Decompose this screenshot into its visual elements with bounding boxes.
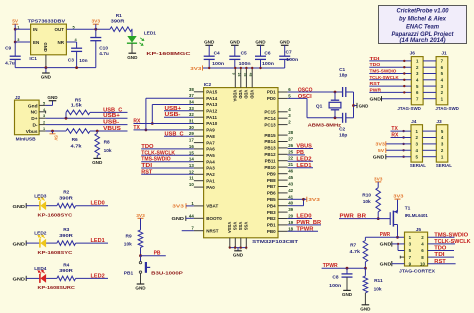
node RX junction (151, 122, 154, 125)
ground symbol regulator (45, 68, 47, 73)
svg-text:PWR_BR: PWR_BR (296, 220, 321, 226)
svg-text:C9: C9 (5, 46, 11, 52)
LED LED4 (39, 274, 41, 283)
svg-text:3V3: 3V3 (136, 213, 145, 219)
wire D+ / net USB+ (46, 117, 128, 119)
wire net RX to J4 (391, 137, 412, 139)
capacitor C7 100n (284, 45, 286, 56)
svg-text:PB7: PB7 (267, 184, 276, 189)
wire J4-J3 (423, 137, 437, 139)
wire J6-J1 (423, 98, 436, 100)
supply 5V at J4 (386, 149, 411, 151)
node rail junction (240, 67, 242, 69)
svg-text:TMS-SWDIO: TMS-SWDIO (434, 232, 468, 238)
svg-text:4.7u: 4.7u (99, 51, 109, 57)
svg-text:GND: GND (41, 75, 52, 80)
wire LED4 to R4 (46, 277, 57, 279)
svg-text:PWR: PWR (370, 87, 382, 92)
svg-text:GND: GND (172, 216, 185, 221)
svg-text:3V3: 3V3 (190, 66, 202, 71)
svg-text:48: 48 (249, 73, 253, 77)
svg-text:LED1: LED1 (91, 238, 105, 244)
svg-text:PWR_BR: PWR_BR (340, 213, 367, 219)
svg-text:GND: GND (255, 40, 266, 45)
resistor R6 (66, 129, 90, 134)
wire NRST (182, 230, 194, 232)
wire net LED0 (288, 218, 312, 220)
wire R1 to LED1 (131, 29, 133, 36)
IC2 pin 17 PA7 (194, 142, 204, 144)
svg-text:100n: 100n (329, 283, 341, 289)
svg-text:VDDA: VDDA (233, 90, 238, 102)
svg-text:C3: C3 (68, 58, 74, 64)
svg-text:GND: GND (135, 286, 146, 291)
wire J4-J3 (423, 143, 437, 145)
svg-text:VDD: VDD (244, 90, 249, 99)
svg-text:C6: C6 (264, 50, 270, 56)
pushbutton PB1 B3U-1000P (140, 256, 142, 262)
svg-text:CricketProbe v1.00: CricketProbe v1.00 (397, 8, 450, 15)
IC2 pin 3 PC14 (278, 117, 288, 119)
wire RX (134, 123, 194, 125)
wire net TCLK-SWCLK to J6 (369, 79, 411, 81)
svg-text:100n: 100n (286, 57, 298, 63)
capacitor C3 (66, 41, 76, 43)
svg-text:LED1: LED1 (144, 31, 157, 37)
wire net TCLK-SWCLK (141, 154, 194, 156)
node VSS junction (229, 247, 231, 249)
svg-text:PA1: PA1 (206, 178, 215, 183)
supply 3V3 at T1 source (395, 198, 401, 200)
wire PB5/PB4 3V3 (288, 198, 304, 200)
svg-text:100n: 100n (212, 61, 224, 67)
ground symbol C8 (343, 289, 351, 291)
svg-text:PB3: PB3 (267, 210, 276, 215)
wire net RST (141, 173, 194, 175)
svg-text:C1: C1 (339, 67, 345, 73)
IC2 pin 30 PA9 (194, 129, 204, 131)
svg-text:1.5k: 1.5k (71, 103, 82, 109)
svg-text:5: 5 (43, 101, 45, 105)
svg-text:36: 36 (243, 73, 247, 77)
svg-text:3V3: 3V3 (172, 204, 184, 209)
node C8 junction (346, 267, 349, 270)
svg-text:GND: GND (373, 154, 385, 159)
svg-text:5V: 5V (378, 148, 384, 153)
IC2 pin 23 VSS (234, 238, 236, 248)
svg-text:KP-1608SYC: KP-1608SYC (38, 250, 74, 255)
svg-text:42: 42 (288, 188, 293, 193)
wire net PWR_BR (339, 218, 390, 220)
ground label crystal (354, 105, 358, 107)
ground symbol C6 (257, 44, 265, 46)
svg-text:ENAC Team: ENAC Team (406, 23, 439, 30)
wire net USB_C (164, 135, 194, 137)
wire net RST at J5 (428, 263, 456, 265)
IC2 pin 38 PA15 (194, 91, 204, 93)
wire net TMS-SWDIO to J6 (369, 73, 411, 75)
IC2 pin 48 VDD (251, 68, 253, 88)
svg-text:PA13: PA13 (206, 102, 217, 107)
svg-text:390R: 390R (59, 268, 73, 274)
svg-text:VBAT: VBAT (206, 204, 218, 209)
svg-text:C5: C5 (241, 50, 247, 56)
svg-text:PB1: PB1 (124, 270, 134, 276)
IC2 pin 4 PC15 (278, 111, 288, 113)
IC2 pin 18 PB0 (278, 230, 288, 232)
svg-text:10: 10 (189, 182, 194, 187)
connector J4 (411, 125, 423, 162)
svg-text:C8: C8 (332, 275, 338, 281)
svg-text:4.7u: 4.7u (5, 60, 15, 66)
svg-text:46: 46 (288, 169, 293, 174)
svg-text:PB1: PB1 (267, 223, 276, 228)
svg-text:by Michel & Alex: by Michel & Alex (399, 16, 447, 23)
node VSS junction (234, 247, 236, 249)
svg-text:PB11: PB11 (265, 158, 277, 163)
svg-text:45: 45 (288, 175, 293, 180)
svg-text:PA9: PA9 (206, 128, 215, 133)
resistor R4 (57, 276, 76, 281)
svg-text:PD1: PD1 (267, 90, 276, 95)
supply 3V3 at J4 (386, 143, 411, 145)
svg-text:EN: EN (33, 40, 39, 45)
node TPWR junction (364, 267, 367, 270)
svg-text:25: 25 (288, 149, 293, 154)
ground symbol R8 (93, 157, 101, 159)
svg-text:LED0: LED0 (91, 201, 105, 207)
svg-text:LED3: LED3 (34, 193, 47, 199)
svg-text:28: 28 (288, 130, 293, 135)
svg-text:VSS: VSS (233, 222, 238, 231)
IC2 pin 10 PA0 (194, 186, 204, 188)
supply 3V3 above R10 (375, 181, 381, 183)
svg-text:PA3: PA3 (206, 166, 215, 171)
wire D- / net USB- (46, 124, 128, 126)
svg-text:20: 20 (288, 214, 293, 219)
svg-text:39: 39 (288, 207, 293, 212)
ground symbol R11 (362, 304, 370, 306)
IC2 pin 22 PB11 (278, 160, 288, 162)
IC2 pin 34 PA13 (194, 104, 204, 106)
wire VSS join (230, 247, 247, 249)
wire net TMS-SWDIO (141, 161, 194, 163)
supply 5V (12, 23, 18, 25)
svg-text:PB5: PB5 (267, 197, 276, 202)
wire net PB (288, 154, 305, 156)
svg-text:USB+: USB+ (165, 106, 182, 112)
svg-text:LED2: LED2 (91, 273, 105, 279)
connector J1 (436, 57, 448, 105)
capacitor C6 100n (260, 45, 262, 56)
J2 NC tick (45, 111, 47, 114)
wire LED1 to ground (131, 43, 133, 53)
svg-text:44: 44 (189, 213, 194, 218)
svg-text:1: 1 (43, 127, 45, 131)
wire 5V to IN (15, 28, 30, 30)
wire IN-EN vertical (14, 29, 16, 42)
svg-text:29: 29 (189, 131, 194, 136)
wire net TDO (141, 148, 194, 150)
resistor R3 (57, 241, 76, 246)
svg-text:PC15: PC15 (264, 110, 276, 115)
3V3 rail wire (203, 67, 285, 69)
IC2 pin 2 PC13 (278, 124, 288, 126)
svg-text:43: 43 (288, 182, 293, 187)
svg-text:GND: GND (230, 40, 241, 45)
svg-text:R3: R3 (63, 227, 69, 233)
svg-text:PA15: PA15 (206, 90, 217, 95)
svg-text:NRST: NRST (206, 228, 219, 233)
svg-text:VBUS: VBUS (103, 126, 122, 132)
svg-text:11: 11 (189, 176, 194, 181)
ground symbol C7 (281, 44, 289, 46)
IC2 pin 39 PB3 (278, 211, 288, 213)
svg-text:R2: R2 (63, 190, 69, 196)
wire net TDI at J5 (428, 256, 454, 258)
svg-text:B3U-1000P: B3U-1000P (151, 270, 183, 275)
svg-text:12: 12 (189, 169, 194, 174)
svg-text:J3: J3 (436, 119, 442, 125)
svg-text:J5: J5 (416, 227, 422, 233)
svg-text:C10: C10 (99, 46, 108, 52)
IC2 pin 44 BOOT0 (194, 217, 204, 219)
svg-text:TDI: TDI (370, 56, 380, 61)
supply 3V3 (93, 23, 99, 25)
capacitor C9 (14, 42, 16, 56)
svg-text:USB-: USB- (165, 112, 181, 118)
svg-text:TDI: TDI (141, 163, 153, 169)
wire R4 / net LED2 (76, 277, 108, 279)
IC2 pin 16 PA6 (194, 148, 204, 150)
node D+/R5 junction (65, 117, 68, 120)
resistor R8 (96, 131, 98, 134)
svg-text:TPWR: TPWR (323, 263, 338, 269)
svg-text:10: 10 (420, 261, 425, 266)
svg-text:USB-: USB- (103, 120, 119, 126)
wire R2 / net LED0 (76, 205, 108, 207)
supply 3V3 at PB5 (304, 198, 307, 200)
svg-text:GND: GND (13, 241, 26, 246)
svg-text:TCLK-SWCLK: TCLK-SWCLK (141, 150, 175, 156)
IC2 pin 36 VDD (245, 68, 247, 88)
node rail/GND junction (45, 66, 48, 69)
svg-text:GND: GND (360, 307, 371, 312)
supply 5V below Vbus (52, 131, 54, 134)
wire J4-J3 (423, 149, 437, 151)
svg-text:PA4: PA4 (206, 159, 215, 164)
IC2 pin 26 PB13 (278, 147, 288, 149)
svg-text:30: 30 (189, 125, 194, 130)
wire J6-J1 (423, 91, 436, 93)
svg-text:TCLK-SWCLK: TCLK-SWCLK (370, 75, 400, 80)
svg-text:GND: GND (370, 96, 382, 101)
svg-text:USB_C: USB_C (165, 131, 185, 137)
wire net PB (141, 255, 166, 257)
svg-text:3V3: 3V3 (92, 19, 101, 25)
svg-text:TMS-SWDIO: TMS-SWDIO (370, 69, 397, 74)
svg-text:13: 13 (189, 163, 194, 168)
svg-text:R10: R10 (362, 192, 371, 198)
node Vbus/R8 junction (96, 130, 99, 133)
node TX junction (145, 129, 148, 132)
svg-text:TX: TX (133, 125, 140, 131)
node rail junction (245, 67, 247, 69)
capacitor C5 100n (234, 45, 236, 56)
wire J6-J1 (423, 66, 436, 68)
capacitor C2 18p (342, 113, 344, 123)
wire net RST to J6 (369, 85, 411, 87)
ground symbol C5 (231, 44, 239, 46)
node OUT/3V3 junction (94, 28, 97, 31)
svg-text:100n: 100n (262, 61, 274, 67)
svg-text:RST: RST (434, 259, 446, 265)
node IN junction (14, 28, 17, 31)
svg-text:C7: C7 (286, 50, 292, 56)
resistor R10 (377, 182, 379, 188)
svg-text:LED0: LED0 (296, 214, 311, 220)
svg-text:16: 16 (189, 144, 194, 149)
wire net TDI to J6 (369, 60, 411, 62)
node PWR junction (396, 236, 399, 239)
wire LED2 to R3 (46, 242, 57, 244)
svg-text:22: 22 (288, 156, 293, 161)
IC2 pin 5 PD0 (278, 97, 288, 99)
svg-text:KP-1608SURC: KP-1608SURC (38, 285, 76, 290)
svg-text:PA11: PA11 (206, 115, 217, 120)
wire GND to LED3 (26, 205, 40, 207)
IC2 pin 33 PA12 (194, 110, 204, 112)
wire GND to LED4 (26, 277, 40, 279)
wire J6-J1 (423, 73, 436, 75)
IC1 GND pin (45, 55, 47, 68)
svg-text:TDO: TDO (141, 144, 153, 150)
svg-text:26: 26 (288, 143, 293, 148)
svg-text:IC2: IC2 (204, 82, 212, 88)
svg-text:GND: GND (380, 261, 392, 266)
svg-text:10k: 10k (374, 286, 382, 292)
svg-text:3: 3 (43, 114, 45, 118)
IC2 pin 20 PB2 (278, 218, 288, 220)
svg-text:STM32F103CBT: STM32F103CBT (252, 239, 298, 245)
svg-text:RST: RST (370, 81, 381, 86)
wire net TDO at J5 (428, 250, 454, 252)
node rail junction (259, 67, 261, 69)
node VSS junction (245, 247, 247, 249)
wire net PWR (365, 236, 404, 238)
wire R5 / net USB_C (90, 111, 128, 113)
svg-text:NC: NC (31, 110, 38, 116)
svg-text:3V3: 3V3 (393, 194, 404, 199)
svg-text:PB10: PB10 (264, 165, 276, 170)
svg-text:J2: J2 (15, 95, 21, 101)
svg-text:TX: TX (391, 126, 398, 132)
node crystal GND junction (352, 104, 355, 107)
IC2 pin 9 VDDA (234, 68, 236, 88)
node PB5 junction (302, 198, 305, 201)
svg-text:24: 24 (237, 73, 241, 77)
svg-text:SERIAL: SERIAL (436, 163, 452, 169)
svg-text:PB12: PB12 (264, 152, 276, 157)
capacitor C8 100n (346, 268, 348, 274)
svg-text:PB8: PB8 (267, 178, 276, 183)
resistor R11 (363, 276, 368, 293)
connector J3 (436, 125, 448, 162)
svg-text:PA14: PA14 (206, 96, 217, 101)
svg-text:10k: 10k (104, 148, 112, 154)
svg-text:PB: PB (296, 150, 304, 156)
svg-text:PB14: PB14 (264, 139, 276, 144)
transistor T1 IRLML6401 (389, 212, 391, 225)
svg-text:VSS: VSS (238, 222, 243, 231)
svg-text:VSSA: VSSA (227, 222, 232, 233)
svg-text:PA0: PA0 (206, 185, 215, 190)
resistor R5 (65, 112, 67, 118)
svg-text:PB13: PB13 (264, 146, 276, 151)
wire J4-J3 (423, 156, 437, 158)
connector J5 (405, 232, 428, 266)
capacitor C4 100n (208, 45, 210, 56)
capacitor C1 18p (342, 87, 344, 97)
svg-text:Vbus: Vbus (26, 129, 38, 135)
svg-text:GND: GND (342, 292, 353, 297)
IC2 pin 1 VBAT (194, 205, 204, 207)
svg-text:PC14: PC14 (264, 116, 276, 121)
IC2 pin 31 PA10 (194, 123, 204, 125)
node R9/PB junction (139, 254, 142, 257)
svg-text:3V3: 3V3 (374, 176, 383, 182)
svg-text:R4: R4 (63, 262, 69, 268)
svg-text:38: 38 (189, 87, 194, 92)
supply 3V3 above R9 (138, 217, 144, 219)
IC2 pin 19 PB1 (278, 224, 288, 226)
svg-text:PB: PB (154, 251, 161, 257)
node rail junction (234, 67, 236, 69)
svg-text:RST: RST (141, 169, 152, 175)
wire net USB- (164, 116, 194, 118)
svg-text:PC13: PC13 (264, 122, 276, 127)
svg-text:GND: GND (13, 204, 26, 209)
svg-text:OUT: OUT (55, 27, 65, 32)
svg-text:100n: 100n (239, 61, 251, 67)
node rail junction (208, 67, 210, 69)
svg-text:PB2: PB2 (267, 216, 276, 221)
IC2 pin 28 PB15 (278, 134, 288, 136)
svg-text:BOOT0: BOOT0 (206, 216, 222, 221)
svg-text:R6: R6 (72, 137, 78, 143)
IC2 pin 14 PA4 (194, 161, 204, 163)
svg-text:PB0: PB0 (267, 229, 276, 234)
svg-text:SERIAL: SERIAL (410, 163, 426, 169)
svg-text:390R: 390R (59, 195, 73, 201)
IC2 pin 12 PA2 (194, 173, 204, 175)
J5 pins 3-5 gnd tie (398, 243, 405, 245)
svg-text:C4: C4 (214, 50, 220, 56)
svg-text:14: 14 (189, 157, 194, 162)
svg-text:18: 18 (288, 226, 293, 231)
MCU IC2 STM32F103CBT (204, 88, 278, 238)
svg-text:GND: GND (204, 40, 215, 45)
wire R3 / net LED1 (76, 242, 108, 244)
svg-text:TDO: TDO (434, 246, 446, 252)
wire net TPWR (288, 230, 318, 232)
svg-text:D+: D+ (31, 116, 37, 122)
svg-text:NR: NR (58, 40, 65, 45)
svg-text:R11: R11 (374, 278, 383, 284)
svg-text:R8: R8 (104, 139, 110, 145)
wire GND to LED2 (26, 242, 40, 244)
svg-text:PB15: PB15 (264, 133, 276, 138)
